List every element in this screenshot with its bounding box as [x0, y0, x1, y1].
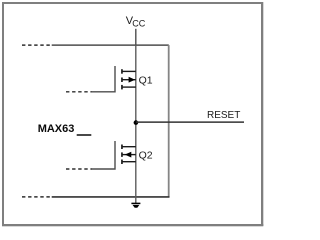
wire bottom rail solid segment [52, 196, 170, 198]
wire top rail solid segment [52, 44, 169, 46]
node RESET junction dot [134, 120, 139, 125]
Q2 channel tick bottom [121, 160, 123, 165]
Q1 drain stub [122, 70, 136, 72]
wire Q1 gate lead solid [92, 66, 116, 92]
Q1 body arrow (points right) [129, 77, 136, 83]
ground filled trapezoid [133, 205, 140, 208]
svg-text:RESET: RESET [207, 110, 240, 121]
wire Q1 gate lead dashed [66, 91, 92, 93]
ground symbol [131, 203, 140, 207]
wire RESET output [136, 121, 244, 123]
wire VCC stem [135, 29, 137, 45]
Q2 body arrow (points left) [125, 152, 132, 158]
label MAX63 trailing underscores [77, 134, 92, 136]
ground bar [131, 202, 140, 204]
Q1 body stub [122, 79, 136, 81]
wire Q2 gate lead dashed [66, 168, 92, 170]
wire Q2 gate lead solid [92, 141, 116, 169]
svg-text:CC: CC [132, 19, 146, 29]
transistor Q2 (N-channel MOSFET) [66, 141, 136, 169]
border frame [2, 2, 263, 226]
wire right vertical (box edge) [168, 45, 170, 197]
wire top rail dashed segment [22, 44, 52, 46]
label VCC [126, 15, 146, 28]
Q1 channel tick top [121, 69, 123, 74]
wire main vertical channel (VCC to ground) [135, 45, 137, 203]
Q2 body stub [122, 154, 136, 156]
Q2 source stub [122, 161, 136, 163]
Q2 channel tick top [121, 145, 123, 150]
Q2 drain stub [122, 146, 136, 148]
svg-text:Q2: Q2 [139, 149, 153, 161]
wire bottom rail dashed segment [22, 196, 52, 198]
Q1 channel tick middle [121, 78, 123, 83]
Q1 channel tick bottom [121, 85, 123, 90]
svg-text:Q1: Q1 [139, 74, 153, 86]
svg-text:MAX63: MAX63 [38, 123, 75, 135]
transistor Q1 (P-channel MOSFET) [66, 66, 136, 92]
Q1 source stub [122, 86, 136, 88]
Q2 channel tick middle [121, 152, 123, 157]
